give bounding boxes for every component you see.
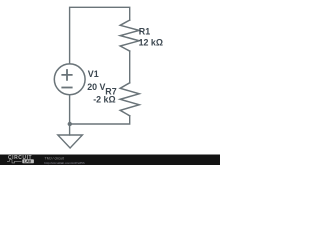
svg-text:TMJ / circuit: TMJ / circuit	[45, 157, 64, 161]
svg-text:20 V: 20 V	[87, 82, 105, 92]
node junction	[68, 122, 72, 126]
wire	[70, 116, 130, 124]
resistor R7	[120, 83, 139, 116]
svg-text:12 kΩ: 12 kΩ	[139, 38, 163, 48]
svg-text:http://circuitlab.com/c/d7e85h: http://circuitlab.com/c/d7e85h	[44, 161, 85, 165]
wire	[129, 51, 131, 83]
svg-text:V1: V1	[88, 69, 99, 79]
voltage source V1	[54, 64, 85, 95]
footer credit text	[44, 157, 85, 165]
svg-text:LAB: LAB	[24, 160, 32, 164]
wire	[70, 7, 130, 63]
footer CircuitLab logo	[7, 155, 34, 164]
ground	[58, 135, 83, 148]
wire	[69, 95, 71, 135]
svg-text:R1: R1	[139, 26, 150, 36]
resistor R1	[120, 20, 139, 51]
footer bar	[0, 155, 220, 166]
svg-text:-2 kΩ: -2 kΩ	[93, 95, 115, 105]
